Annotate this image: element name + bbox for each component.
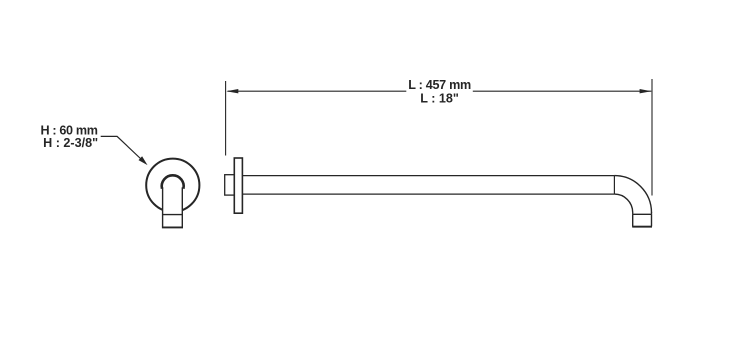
dimension line L with arrows [226,89,651,93]
svg-text:L : 18": L : 18" [420,92,459,106]
svg-text:L : 457 mm: L : 457 mm [408,78,471,92]
shower arm down-tube (front view) [162,175,184,227]
elbow bend (side view) [614,176,651,213]
arm end piece (side view) [632,212,652,227]
svg-text:H : 2-3/8": H : 2-3/8" [43,136,98,150]
wall stub (side view) [225,175,235,195]
dimension extension line left [225,81,227,156]
shower arm tube (side view) [242,176,614,195]
dimension extension line right [651,79,653,196]
leader line with arrow to flange [101,136,148,165]
flange plate (side view) [234,158,242,213]
wall flange (front view circle) [146,159,199,212]
